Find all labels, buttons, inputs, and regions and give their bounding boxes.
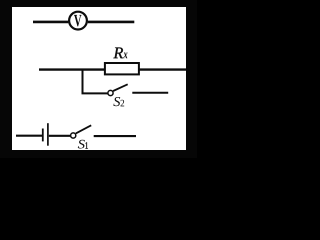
wire bottom-left to battery [16,135,42,137]
black frame background [0,0,197,158]
battery long plate [47,123,49,146]
battery short plate [42,129,44,142]
wire middle-left to resistor [39,68,105,70]
wire voltmeter to top-right [88,21,135,24]
switch S2 blade [113,84,128,91]
label S of S2 [113,97,120,106]
wire right of switch S1 [94,135,136,137]
label S of S1 [78,140,85,149]
switch S1 blade [76,125,91,133]
label V of voltmeter [74,15,82,26]
resistor Rx body [105,63,139,74]
wire vertical drop from middle wire junction [82,69,84,93]
label 2 of S2 [120,100,124,107]
white drawing area [12,7,186,150]
wire top-left to voltmeter [33,21,68,24]
wire right of switch S2 [132,92,168,94]
label 1 of S1 [85,142,88,148]
wire battery to switch S1 [49,135,71,137]
label R of Rx [113,48,123,59]
wire elbow to switch S2 [82,92,108,94]
wire resistor to right border [139,68,186,70]
switch S2 pivot circle [108,90,113,95]
voltmeter V circle [69,12,87,30]
switch S1 pivot circle [71,133,76,138]
label x of Rx [123,52,127,58]
